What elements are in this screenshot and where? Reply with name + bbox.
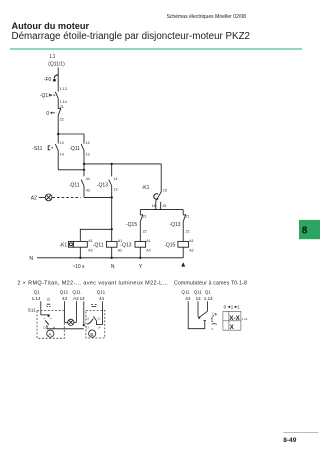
wire S11 link to node B: [58, 169, 84, 171]
footer rule: [283, 431, 318, 434]
svg-text:13: 13: [86, 325, 90, 329]
wire button A bottom link: [47, 325, 84, 329]
lamp stub wire: [39, 196, 45, 198]
wire Q11 seal down through junctions: [83, 150, 85, 176]
fuse F0: [54, 75, 58, 79]
dashed lamp wire: [52, 196, 80, 198]
svg-text:16: 16: [152, 204, 156, 208]
cam switch contact: [199, 311, 207, 317]
svg-text:Commutateur à cames T0-1-8: Commutateur à cames T0-1-8: [174, 280, 247, 286]
contact Q1 (NO aux of PKZ2): [55, 92, 58, 98]
contact S11 (start button NO 13-14): [55, 144, 58, 150]
svg-text:(Q11/1): (Q11/1): [48, 62, 65, 68]
lamp in button block: [65, 321, 77, 323]
svg-text:0: 0: [46, 111, 49, 117]
svg-text:44: 44: [185, 296, 191, 301]
svg-text:13: 13: [60, 141, 64, 145]
function label delta: [181, 262, 185, 266]
wire K1 coil to N rail: [79, 247, 81, 258]
svg-text:Démarrage étoile-triangle par: Démarrage étoile-triangle par disjoncteu…: [12, 31, 251, 42]
wire main down to K1 contact: [160, 164, 162, 192]
svg-text:15: 15: [163, 189, 167, 193]
svg-text:44: 44: [99, 296, 105, 301]
wire Q13 coil to N rail: [139, 247, 141, 258]
svg-text:B: B: [90, 332, 93, 338]
svg-text:14: 14: [196, 296, 202, 301]
svg-text:Q1: Q1: [34, 290, 41, 295]
wire stub Q13-14 top: [111, 164, 113, 177]
svg-text:1: 1: [237, 305, 240, 310]
contactor coil Q13 star: [120, 239, 150, 253]
svg-text:22: 22: [60, 117, 64, 121]
svg-text:Autour du moteur: Autour du moteur: [12, 21, 90, 31]
svg-text:8: 8: [302, 226, 308, 237]
junction Q11 on N: [111, 257, 113, 259]
timer contact K1 changeover with delay arc: [156, 192, 161, 201]
svg-text:A2: A2: [189, 248, 193, 252]
svg-text:A2: A2: [118, 248, 122, 252]
svg-text:22: 22: [143, 230, 147, 234]
svg-text:21: 21: [186, 215, 190, 219]
wire parallel box top: [58, 133, 84, 135]
svg-text:22: 22: [97, 316, 101, 320]
junction node C on main rail: [111, 163, 113, 165]
chapter tab 8: [299, 220, 320, 239]
svg-text:21: 21: [143, 215, 147, 219]
svg-text:Q11: Q11: [194, 290, 203, 295]
wire K1 pole stubs: [155, 201, 157, 210]
svg-text:Q1: Q1: [205, 290, 212, 295]
wire stub Q15 NC top: [139, 210, 141, 215]
svg-text:13: 13: [43, 325, 47, 329]
svg-text:14: 14: [97, 325, 101, 329]
cam mechanism dashed arc: [212, 315, 217, 325]
svg-text:Q11: Q11: [72, 290, 81, 295]
wire terminal 1.14 down: [40, 301, 42, 315]
svg-text:-Q15: -Q15: [126, 222, 137, 228]
junction K1 branch: [111, 228, 113, 230]
svg-text:1.14: 1.14: [242, 317, 248, 321]
svg-text:-Q13: -Q13: [169, 222, 180, 228]
svg-text:A1: A1: [146, 239, 150, 243]
svg-text:X-X: X-X: [229, 315, 240, 322]
svg-text:A2: A2: [146, 248, 150, 252]
wire terminal 14 down: [83, 301, 85, 325]
svg-text:1.14: 1.14: [32, 296, 41, 301]
junction Q13 on N: [139, 257, 141, 259]
wire Q11 coil to N rail: [111, 247, 113, 258]
contact Q13 NC 21-22: [183, 214, 185, 216]
svg-text:21: 21: [86, 316, 90, 320]
svg-text:-Q11: -Q11: [93, 242, 104, 248]
contactor coil Q15 delta: [164, 239, 193, 253]
contact Q15 NC 21-22: [140, 214, 142, 216]
contact 0 (cam switch NC 21-22): [58, 108, 61, 110]
svg-text:A2: A2: [31, 196, 37, 202]
green rule: [10, 48, 302, 49]
junction in button B: [83, 324, 85, 326]
svg-text:0: 0: [224, 305, 227, 310]
wire Q11-43 down to lamp line: [83, 186, 85, 197]
svg-text:N: N: [29, 256, 33, 262]
svg-text:Q11: Q11: [181, 290, 190, 295]
svg-text:A2: A2: [73, 296, 79, 301]
svg-text:Q11: Q11: [97, 290, 106, 295]
circled marker A: [47, 330, 54, 337]
wire crossbar to interlocks: [140, 209, 183, 211]
svg-text:Y: Y: [139, 264, 143, 270]
svg-text:2 × RMQ-Titan, M22-… avec voya: 2 × RMQ-Titan, M22-… avec voyant lumineu…: [17, 280, 168, 286]
svg-text:13: 13: [86, 152, 90, 156]
wire Q1 to 0-contact: [57, 98, 59, 108]
junction node B lower: [83, 169, 85, 171]
svg-text:N: N: [111, 264, 115, 270]
svg-text:-Q1: -Q1: [40, 93, 49, 99]
svg-text:14: 14: [80, 296, 86, 301]
svg-text:0: 0: [47, 297, 50, 302]
wire node C down to Q11 coil: [111, 197, 113, 241]
svg-text:4: 4: [211, 327, 213, 331]
indicator lamp: [45, 194, 52, 201]
wire Q13-13 down: [111, 186, 113, 197]
button B contact: [87, 319, 93, 325]
cam switch wiring: [188, 301, 205, 328]
svg-text:13: 13: [114, 188, 118, 192]
wire lamp line solid: [84, 196, 112, 198]
svg-text:14: 14: [86, 141, 90, 145]
svg-text:1: 1: [211, 312, 213, 316]
junction K1 on N: [79, 257, 81, 259]
button A contact: [41, 314, 50, 316]
wire stub S11 top: [57, 134, 59, 144]
button B position flag: [91, 304, 96, 306]
contact Q13 13-14: [109, 180, 112, 186]
svg-text:A2: A2: [88, 248, 92, 252]
svg-text:S11: S11: [28, 307, 36, 312]
svg-text:A1: A1: [189, 239, 193, 243]
wire L1 down to fuse: [57, 67, 59, 75]
svg-text:L1: L1: [50, 54, 56, 60]
wire 0-contact down to node: [57, 115, 59, 134]
wire S11 bottom: [57, 150, 59, 169]
timer relay coil K1: [59, 239, 92, 253]
button A dashed enclosure: [37, 310, 64, 338]
svg-text:1: 1: [231, 305, 234, 310]
svg-text:-S11: -S11: [32, 146, 42, 152]
wire main rail to K1: [84, 163, 161, 165]
wire terminal 43 down: [64, 301, 66, 322]
button B dashed enclosure: [86, 310, 105, 338]
wire Q15 NC down to Q13 coil: [139, 222, 141, 242]
svg-text:-F0: -F0: [44, 77, 52, 83]
N rail: [37, 257, 183, 259]
svg-text:1.14: 1.14: [60, 100, 67, 104]
svg-text:-Q13: -Q13: [97, 183, 108, 189]
svg-text:Q11: Q11: [60, 290, 69, 295]
svg-text:-Q11: -Q11: [69, 183, 80, 189]
svg-text:-Q15: -Q15: [164, 242, 175, 248]
wire Q15 coil to N rail: [182, 247, 184, 258]
svg-text:-K1: -K1: [142, 185, 150, 191]
contactor coil Q11: [93, 239, 122, 253]
wire terminal 44 down: [102, 301, 104, 324]
svg-text:Schémas électriques Moeller 02: Schémas électriques Moeller 02/08: [166, 14, 246, 20]
svg-text:18: 18: [162, 204, 166, 208]
wire Q13 NC down to Q15 coil: [182, 222, 184, 242]
position table grid: [223, 311, 241, 330]
svg-text:44: 44: [86, 177, 90, 181]
svg-text:-Q13: -Q13: [120, 242, 131, 248]
wire branch to K1 coil: [80, 229, 111, 241]
svg-text:1.13: 1.13: [60, 87, 67, 91]
junction lamp node: [111, 196, 113, 198]
junction node B main: [83, 163, 85, 165]
svg-text:~10 s: ~10 s: [72, 264, 85, 270]
svg-text:1.14: 1.14: [204, 296, 213, 301]
contact Q11 seal (NO 14-13): [81, 144, 84, 150]
wire fuse to Q1 contact: [57, 75, 59, 92]
circled marker B: [89, 330, 96, 337]
svg-text:22: 22: [186, 230, 190, 234]
wire stub Q11 seal top: [83, 134, 85, 144]
wire terminal A2 down: [76, 301, 78, 322]
svg-text:-K1: -K1: [59, 242, 67, 248]
svg-text:-Q11: -Q11: [69, 146, 80, 152]
svg-text:14: 14: [60, 152, 64, 156]
contact Q11 43-44 (lamp seal): [81, 180, 84, 186]
svg-text:8-49: 8-49: [283, 437, 297, 444]
svg-text:14: 14: [114, 177, 118, 181]
wire stub Q13 NC top: [182, 210, 184, 215]
svg-text:3: 3: [211, 322, 213, 326]
svg-text:43: 43: [62, 296, 68, 301]
svg-text:43: 43: [86, 189, 90, 193]
junction start-branch node: [57, 133, 59, 135]
